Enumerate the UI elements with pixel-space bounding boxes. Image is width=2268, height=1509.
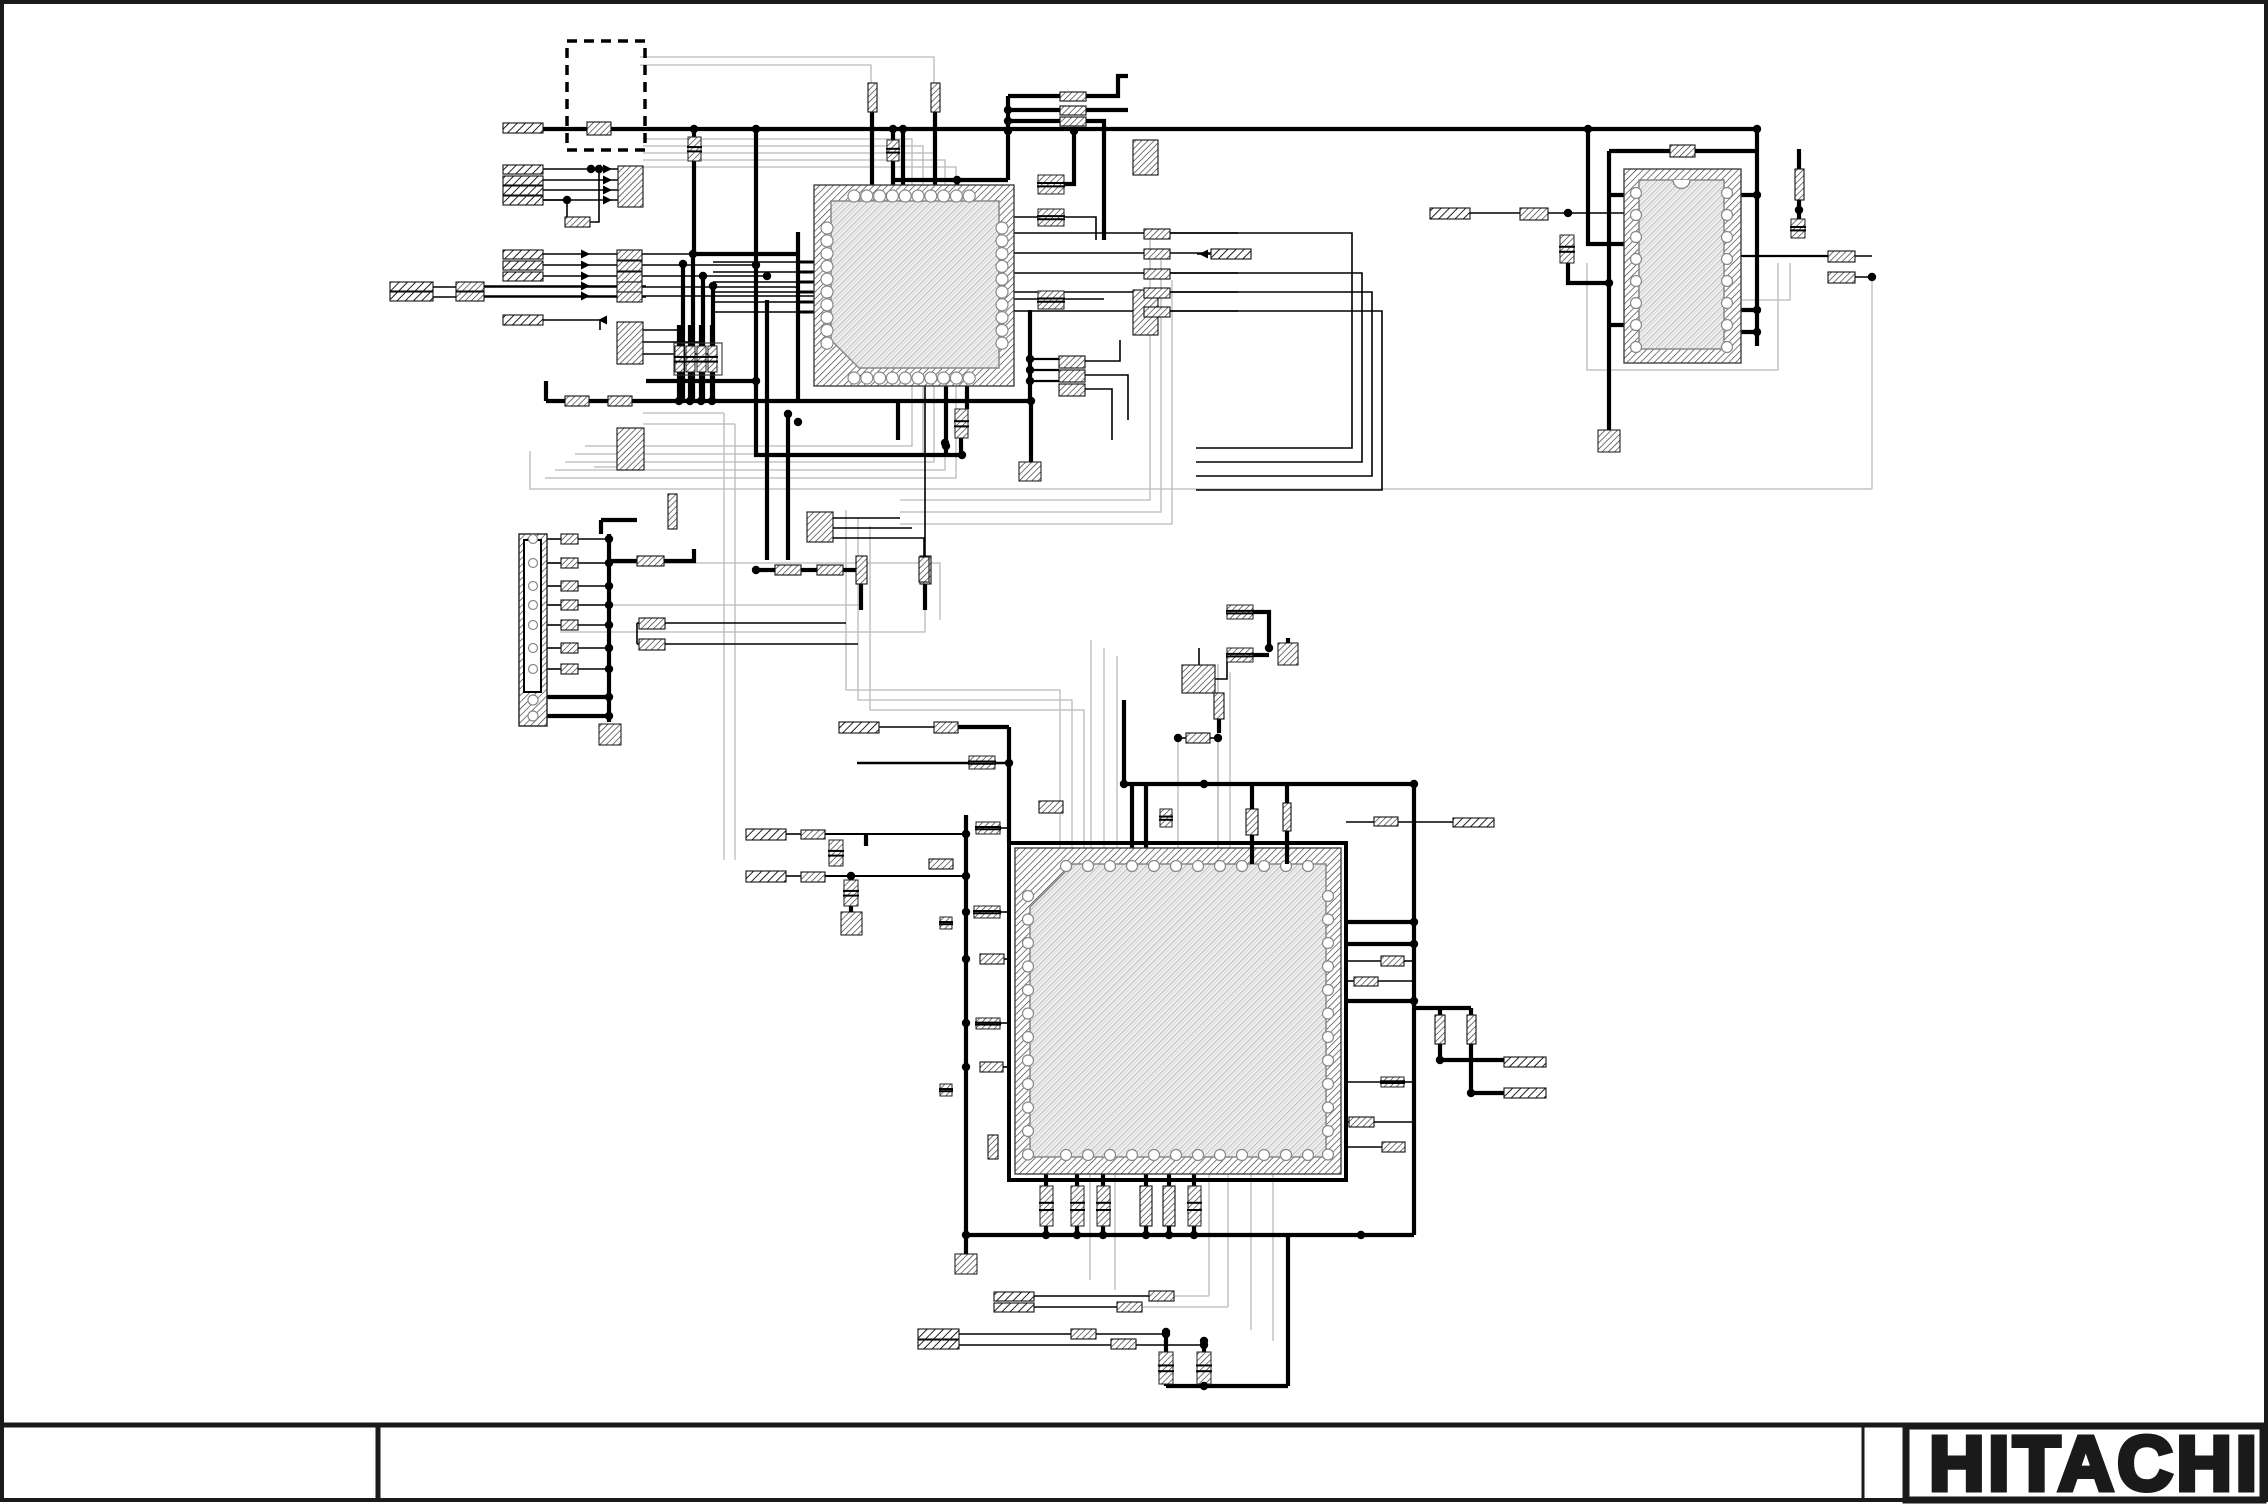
svg-text:HITACHI: HITACHI bbox=[1929, 1421, 2255, 1504]
